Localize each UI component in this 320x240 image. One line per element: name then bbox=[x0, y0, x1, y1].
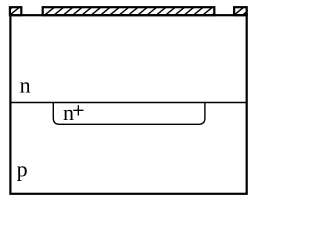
n+ buried layer outline bbox=[53, 102, 205, 124]
left top contact (hatched) bbox=[3, 7, 22, 15]
center top oxide/metal bar (hatched) bbox=[43, 7, 222, 15]
substrate body rectangle bbox=[10, 15, 246, 194]
n / p junction line bbox=[10, 102, 246, 104]
superscript plus of n+ bbox=[73, 105, 83, 115]
svg-text:p: p bbox=[17, 157, 28, 182]
right top contact (hatched) bbox=[234, 7, 252, 15]
svg-text:n: n bbox=[20, 73, 31, 98]
svg-text:n: n bbox=[63, 100, 74, 125]
